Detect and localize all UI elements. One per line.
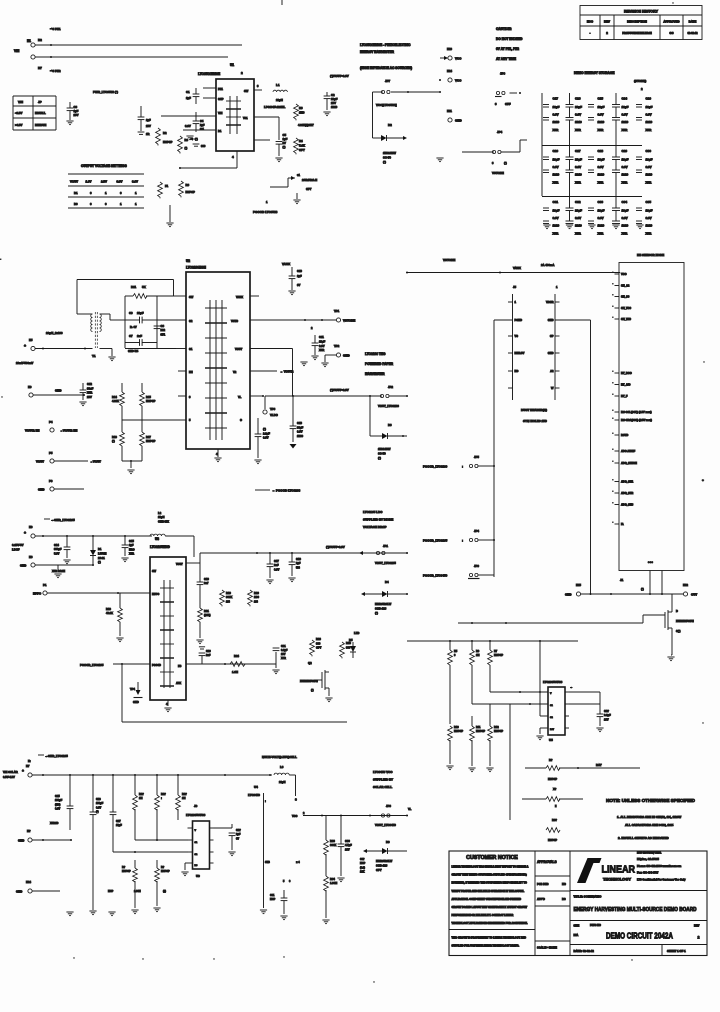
svg-text:D1: D1 <box>74 191 78 195</box>
svg-text:VLDO: VLDO <box>270 413 279 417</box>
svg-text:P1: P1 <box>43 583 47 587</box>
svg-text:OUT: OUT <box>691 593 697 597</box>
svg-text:6.3V: 6.3V <box>319 344 325 348</box>
resistor R38 bat <box>525 758 640 781</box>
svg-text:C32: C32 <box>575 200 581 204</box>
svg-text:ADC_CH2: ADC_CH2 <box>621 491 634 495</box>
svg-text:U6: U6 <box>196 874 200 878</box>
capacitor C13 <box>290 396 304 449</box>
wire solar input bus <box>35 535 152 537</box>
capacitor C8 series <box>154 324 166 336</box>
svg-text:6.3V: 6.3V <box>575 112 581 116</box>
svg-text:(*): (*) <box>195 137 198 141</box>
resistor R37 low <box>155 860 170 906</box>
svg-text:10µH: 10µH <box>158 515 165 519</box>
svg-text:LTC Confidential-For Customer: LTC Confidential-For Customer Use Only <box>637 878 686 881</box>
approvals column <box>535 860 570 950</box>
svg-text:VCC: VCC <box>455 57 462 61</box>
resistor R26 led <box>340 641 352 658</box>
svg-text:4.02K: 4.02K <box>112 399 119 403</box>
svg-text:22µH: 22µH <box>279 780 286 784</box>
resistor R3 VOUT set <box>294 104 314 127</box>
svg-text:+: + <box>24 344 26 348</box>
svg-text:INSTALL: INSTALL <box>35 111 46 115</box>
svg-text:JP2: JP2 <box>388 385 393 389</box>
svg-text:→GND_LTC3105: →GND_LTC3105 <box>51 518 75 522</box>
svg-text:6.3V: 6.3V <box>646 216 652 220</box>
svg-text:20µH_1:100: 20µH_1:100 <box>46 331 63 335</box>
svg-text:>3.5V: >3.5V <box>15 123 23 127</box>
capacitor C26 storage bank <box>543 149 560 184</box>
svg-text:3n7: 3n7 <box>204 581 209 585</box>
svg-text:C31: C31 <box>270 894 275 897</box>
wire U1 GND pin <box>254 139 270 141</box>
svg-text:2A 400mA: 2A 400mA <box>541 263 554 267</box>
svg-text:C13: C13 <box>297 421 302 425</box>
terminal P1 MPPC <box>33 583 150 596</box>
svg-text:PGOOD_LTC3105: PGOOD_LTC3105 <box>80 663 104 667</box>
svg-text:R11: R11 <box>131 285 137 289</box>
resistor R7b NOPOP <box>158 182 169 198</box>
svg-text:NOPOP: NOPOP <box>548 778 557 781</box>
resistor R40 bat3 <box>546 818 560 842</box>
svg-text:20mV-500mV: 20mV-500mV <box>16 361 33 365</box>
capacitor C30 <box>337 816 352 882</box>
svg-text:CUSTOMER NOTICE: CUSTOMER NOTICE <box>466 855 518 861</box>
svg-text:E?: E? <box>27 829 31 833</box>
svg-text:33µF: 33µF <box>297 425 304 429</box>
svg-text:6.3V: 6.3V <box>55 808 60 811</box>
label VOUT LTC3588 <box>330 74 349 78</box>
svg-text:VBOR: VBOR <box>546 300 554 304</box>
svg-text:C27: C27 <box>116 820 121 823</box>
svg-text:C18: C18 <box>296 557 301 561</box>
svg-text:R18: R18 <box>106 607 111 611</box>
diode D6 <box>363 840 407 872</box>
svg-text:GND: GND <box>38 488 44 492</box>
svg-text:DESCRIPTION: DESCRIPTION <box>627 20 647 24</box>
svg-text:22pF: 22pF <box>137 311 144 315</box>
svg-text:0.1µF: 0.1µF <box>604 713 611 717</box>
svg-text:SH_A2: SH_A2 <box>621 284 630 288</box>
svg-text:TP2: TP2 <box>334 344 340 348</box>
svg-text:(*): (*) <box>98 560 101 564</box>
svg-text:(*)VOUT=3.6V: (*)VOUT=3.6V <box>330 74 349 78</box>
svg-text:R2?: R2? <box>161 793 166 796</box>
transistor Q3 <box>665 594 694 636</box>
capacitor C28b J6 <box>214 824 242 856</box>
svg-text:OPT: OPT <box>299 148 305 152</box>
svg-text:(0): (0) <box>163 890 166 893</box>
svg-text:⇀3 PZ1: ⇀3 PZ1 <box>50 26 61 31</box>
svg-text:VL: VL <box>238 395 242 399</box>
wire secondary top to U2 <box>100 314 126 320</box>
svg-text:PERFORMANCE OR RELIABILITY. CO: PERFORMANCE OR RELIABILITY. CONTACT LINE… <box>452 914 514 917</box>
svg-text:NOP: NOP <box>108 890 114 893</box>
svg-text:STB: STB <box>265 861 270 864</box>
svg-text:1G0: 1G0 <box>254 595 259 599</box>
capacitor C15 storage bank <box>588 97 605 132</box>
svg-text:LTC3459: LTC3459 <box>248 793 260 797</box>
svg-text:REV: REV <box>604 20 610 24</box>
svg-text:2: 2 <box>698 936 700 940</box>
terminal E5 VIN TEG <box>16 338 35 365</box>
terminal P4 VOUT2 EN <box>25 420 77 433</box>
wire U1 D1 pin with arrow <box>183 124 216 130</box>
svg-text:ZXM?N3F30FH: ZXM?N3F30FH <box>300 680 318 683</box>
resistor R39 bat2 <box>522 787 583 808</box>
svg-text:C17: C17 <box>274 559 279 563</box>
svg-text:APPROVALS: APPROVALS <box>537 860 557 864</box>
svg-text:(*): (*) <box>185 146 188 150</box>
svg-text:X5R: X5R <box>598 231 605 235</box>
svg-text:VAUX: VAUX <box>513 266 521 270</box>
svg-text:100µF: 100µF <box>55 799 63 802</box>
svg-text:R8: R8 <box>186 183 190 187</box>
svg-text:3F1: 3F1 <box>161 332 166 336</box>
svg-text:MS: MS <box>562 882 566 886</box>
svg-text:E14: E14 <box>447 69 452 73</box>
U2 pin labels <box>189 295 243 422</box>
svg-text:X7R: X7R <box>129 552 134 556</box>
terminal P6 GND <box>38 479 84 492</box>
svg-text:DWG NO: DWG NO <box>590 923 601 927</box>
resistor R32 fb <box>488 704 504 766</box>
jumper JP5 PGOOD 3109 <box>423 455 495 469</box>
capacitor C20b <box>199 647 212 664</box>
svg-text:R2?: R2? <box>139 793 144 796</box>
svg-text:TECHNOLOGY APPLICATIONS ENGINE: TECHNOLOGY APPLICATIONS ENGINEERING FOR … <box>452 922 528 925</box>
svg-text:D3: D3 <box>388 423 392 427</box>
svg-text:NOPOP: NOPOP <box>122 870 131 873</box>
svg-text:VOUT2 EN: VOUT2 EN <box>25 429 39 433</box>
svg-text:C26: C26 <box>553 149 559 153</box>
capacitor C34 storage bank <box>612 197 629 236</box>
svg-text:20V≤F10A-H: 20V≤F10A-H <box>302 178 317 182</box>
ground below C5 <box>275 158 282 162</box>
svg-text:1206: 1206 <box>297 434 303 438</box>
svg-text:R12: R12 <box>494 726 499 729</box>
svg-text:NOPOP: NOPOP <box>494 654 503 657</box>
svg-text:VL: VL <box>408 807 412 811</box>
capacitor C23 U5 <box>596 704 611 732</box>
terminal E12 OUT <box>683 583 697 597</box>
svg-text:VCC: VCC <box>292 815 297 818</box>
svg-text:222: 222 <box>161 328 166 332</box>
svg-text:1210: 1210 <box>646 223 653 227</box>
wire cap bank bus row2 <box>542 145 642 147</box>
svg-text:BAT: BAT <box>596 763 602 767</box>
svg-text:S: S <box>295 798 297 802</box>
svg-text:LED: LED <box>354 631 359 635</box>
wire VLDO tap <box>250 395 265 409</box>
svg-text:(6.3): (6.3) <box>360 866 365 869</box>
svg-text:LTC2935CTS8: LTC2935CTS8 <box>543 680 563 684</box>
svg-text:C7: C7 <box>129 334 133 338</box>
svg-text:+: + <box>24 531 26 535</box>
wire U2 EN pin <box>178 370 186 372</box>
svg-text:X5R: X5R <box>622 128 629 132</box>
ground Q2 <box>325 698 332 702</box>
wire PGOOD bus bracket <box>494 320 513 577</box>
svg-text:C10: C10 <box>297 269 302 273</box>
svg-text:330: 330 <box>346 645 351 649</box>
wire J2 GND to E15 <box>555 320 591 594</box>
svg-text:(20K): (20K) <box>204 613 211 617</box>
svg-text:JP3: JP3 <box>386 804 391 808</box>
svg-text:I2C SDA(DC6) (2.5V max): I2C SDA(DC6) (2.5V max) <box>621 418 652 422</box>
svg-text:LINEAR TECHNOLOGY HAS MADE A B: LINEAR TECHNOLOGY HAS MADE A BEST EFFORT… <box>452 866 529 869</box>
capacitor C5 <box>276 133 288 156</box>
svg-text:PGND: PGND <box>515 318 523 322</box>
svg-text:APP'D: APP'D <box>537 897 545 901</box>
resistor R28 divider <box>470 641 480 692</box>
capacitor C31 fb <box>270 890 288 920</box>
svg-text:D4: D4 <box>385 580 389 584</box>
svg-text:1210: 1210 <box>622 120 629 124</box>
svg-text:C31: C31 <box>553 200 559 204</box>
svg-text:MBR0520LW: MBR0520LW <box>376 859 393 863</box>
svg-text:(HIGH IMPEDANCE AC SOURCES): (HIGH IMPEDANCE AC SOURCES) <box>360 66 412 70</box>
wire VOUT2 net <box>250 370 294 374</box>
svg-text:0.25V-5V: 0.25V-5V <box>12 543 24 547</box>
svg-text:L1: L1 <box>276 83 280 87</box>
ground R31 <box>468 768 475 772</box>
svg-text:R?: R? <box>161 866 165 869</box>
svg-text:1630 McCarthy Blvd.: 1630 McCarthy Blvd. <box>637 852 662 855</box>
wire U1 VIN pin <box>161 115 216 117</box>
wire U3 VOUT to bus <box>186 553 200 563</box>
svg-text:PGOOD: PGOOD <box>152 664 161 667</box>
wire U5 right pins <box>569 686 600 704</box>
svg-text:VCC: VCC <box>621 272 627 276</box>
capacitor C2 output <box>323 92 337 116</box>
svg-text:X5R: X5R <box>622 180 629 184</box>
svg-text:10µF: 10µF <box>575 157 582 161</box>
svg-text:1210: 1210 <box>646 120 653 124</box>
svg-text:PGOOD_LTC3105: PGOOD_LTC3105 <box>423 539 448 543</box>
svg-text:6.3V: 6.3V <box>96 806 101 809</box>
label DEMO ENERGY STORAGE <box>574 71 646 91</box>
svg-text:E12: E12 <box>683 583 688 587</box>
svg-text:L2: L2 <box>158 511 162 515</box>
svg-text:VIN: VIN <box>18 100 23 104</box>
svg-text:PGOOD_LTC3109: PGOOD_LTC3109 <box>423 465 448 469</box>
ground R34 <box>322 920 329 924</box>
svg-text:SC-70: SC-70 <box>378 452 386 456</box>
capacitor C18b <box>288 553 301 582</box>
svg-text:16V: 16V <box>604 717 609 721</box>
svg-text:EN: EN <box>189 370 193 374</box>
svg-text:OPT: OPT <box>316 646 322 650</box>
svg-text:HARVESTER: HARVESTER <box>365 372 385 376</box>
svg-text:<3.5V: <3.5V <box>15 111 23 115</box>
ground R32 <box>486 768 493 772</box>
svg-text:(*): (*) <box>641 587 644 591</box>
svg-text:1. ALL RESISTORS ARE IN OHMS,: 1. ALL RESISTORS ARE IN OHMS, 1%, 1/10W <box>617 815 681 819</box>
ground row bottom C25 <box>66 912 73 916</box>
svg-text:X5R: X5R <box>598 128 605 132</box>
svg-text:D0: D0 <box>74 202 78 206</box>
svg-text:(*): (*) <box>263 427 266 431</box>
svg-text:6.3V: 6.3V <box>263 436 269 440</box>
svg-text:10µF: 10µF <box>553 105 560 109</box>
svg-text:(*): (*) <box>311 689 314 692</box>
svg-text:A2: A2 <box>550 369 554 373</box>
testpoint TP2 GND <box>321 344 350 367</box>
svg-text:C34: C34 <box>622 200 628 204</box>
svg-text:R17: R17 <box>146 435 151 439</box>
wire T1 primary bottom <box>35 348 92 350</box>
svg-text:VOUT: VOUT <box>36 460 44 464</box>
capacitor C10 VAUX <box>288 267 302 295</box>
capacitor C19 fb <box>197 563 210 608</box>
wire U5 lower bus <box>509 704 511 820</box>
svg-text:VSTORE: VSTORE <box>443 258 455 262</box>
svg-text:LTC3108 TEG: LTC3108 TEG <box>365 352 386 356</box>
resistor R29 divider <box>488 641 504 692</box>
svg-text:2. INSTALL SHUNTS AS INDICATED: 2. INSTALL SHUNTS AS INDICATED <box>618 836 670 840</box>
transistor Q1 PGOOD flag <box>270 173 317 191</box>
IC U5 LTC2935 <box>543 680 569 742</box>
svg-text:JP4: JP4 <box>474 529 479 533</box>
IC U2 LTC3109 <box>186 259 250 449</box>
svg-text:+: + <box>702 478 704 482</box>
svg-text:GND: GND <box>18 839 24 843</box>
IC U3 LTC3105 <box>150 537 186 700</box>
svg-text:LPS6045-223ML: LPS6045-223ML <box>264 105 286 109</box>
svg-text:1210: 1210 <box>575 223 582 227</box>
svg-text:6.3V: 6.3V <box>646 112 652 116</box>
svg-text:10µF: 10µF <box>622 105 629 109</box>
svg-text:OPT: OPT <box>376 868 382 872</box>
svg-text:PWR_LTC3588 (*): PWR_LTC3588 (*) <box>93 90 118 94</box>
svg-text:(*): (*) <box>504 161 507 165</box>
svg-text:X5R: X5R <box>575 231 582 235</box>
terminal E9 GND <box>28 385 85 397</box>
svg-text:BH/2.5V: BH/2.5V <box>515 351 525 355</box>
svg-text:C15: C15 <box>129 539 134 543</box>
svg-text:10µF: 10µF <box>646 105 653 109</box>
wire JP2 to D3 <box>369 396 371 436</box>
capacitor C15 input2 <box>121 536 134 562</box>
svg-text:E9: E9 <box>28 385 32 389</box>
svg-text:CIRCUIT THAT MEETS CUSTOMER-SU: CIRCUIT THAT MEETS CUSTOMER-SUPPLIED SPE… <box>452 874 527 877</box>
resistor R5 nopop <box>156 128 173 146</box>
label VOUT ltc3459 <box>408 807 412 811</box>
wire below U1 <box>179 151 237 169</box>
jumper JP7 VCC select <box>381 79 441 94</box>
svg-text:6V AT PZ1, PZ2: 6V AT PZ1, PZ2 <box>496 47 519 51</box>
capacitor C12 <box>79 382 93 406</box>
label VOUT_LTC3459 <box>375 823 396 827</box>
diode D3 <box>370 423 407 460</box>
svg-text:D1: D1 <box>98 547 102 551</box>
resistor R33 fb <box>324 816 337 877</box>
terminal E11 GND <box>447 109 463 123</box>
svg-text:X5R: X5R <box>598 180 605 184</box>
svg-text:10µF: 10µF <box>598 208 605 212</box>
svg-text:VERIFY PROPER AND RELIABLE OPE: VERIFY PROPER AND RELIABLE OPERATION IN … <box>452 890 525 893</box>
svg-text:25V: 25V <box>146 124 151 128</box>
wire PZ1 <box>35 44 242 46</box>
svg-text:C33: C33 <box>598 200 604 204</box>
jumper JP6 PGOOD 3459 <box>423 564 494 579</box>
svg-text:R10: R10 <box>454 726 459 729</box>
svg-text:C2: C2 <box>189 319 193 323</box>
diode D4 <box>361 580 408 615</box>
wire U2 pin C1 <box>125 348 186 350</box>
svg-text:SH_VC0: SH_VC0 <box>621 306 632 310</box>
svg-text:I2C SCL(DC7) (2.5V max): I2C SCL(DC7) (2.5V max) <box>621 410 652 414</box>
resistor R24 <box>230 654 245 674</box>
wire U3 pgood row <box>186 663 276 665</box>
svg-text:X5R: X5R <box>622 231 629 235</box>
svg-text:VCC[LTC3588]: VCC[LTC3588] <box>376 103 397 107</box>
svg-text:SH_VE0: SH_VE0 <box>621 317 632 321</box>
svg-text:C17: C17 <box>553 97 559 101</box>
resistor R35a NOPOP <box>176 775 188 820</box>
svg-text:4.7µF: 4.7µF <box>345 843 352 847</box>
capacitor C11 <box>311 335 325 360</box>
ground mid <box>166 205 173 227</box>
svg-text:VCC: VCC <box>455 79 462 83</box>
svg-text:22µH: 22µH <box>276 98 283 102</box>
svg-text:SW: SW <box>152 570 157 573</box>
svg-text:10µF: 10µF <box>622 157 629 161</box>
svg-text:E7: E7 <box>26 764 30 768</box>
svg-text:1210: 1210 <box>598 223 605 227</box>
svg-text:NOP: NOP <box>360 862 366 865</box>
terminal E15 GND <box>565 583 683 597</box>
svg-text:1210: 1210 <box>646 172 653 176</box>
resistor R19 NOPOP <box>220 590 233 606</box>
ground center <box>436 158 443 162</box>
svg-text:VSTORE: VSTORE <box>492 171 504 175</box>
svg-text:0.1µF: 0.1µF <box>281 649 288 652</box>
capacitor C27 <box>110 775 123 852</box>
wire U1 PZ1 pin <box>203 87 216 89</box>
connector J2 right row <box>546 285 560 400</box>
svg-text:1µF: 1µF <box>129 543 134 547</box>
inductor L1 <box>264 83 287 109</box>
svg-text:6.3V: 6.3V <box>553 165 559 169</box>
svg-text:02-02-12: 02-02-12 <box>687 32 698 35</box>
svg-text:R24: R24 <box>234 654 239 658</box>
label supplied by solar <box>373 770 393 789</box>
svg-text:10µF: 10µF <box>622 208 629 212</box>
svg-text:RT_F: RT_F <box>621 394 628 398</box>
svg-text:X5R: X5R <box>646 180 653 184</box>
capacitor C22b <box>254 418 270 464</box>
node PZ1 label <box>38 26 61 42</box>
svg-text:LTC3105EDD: LTC3105EDD <box>150 545 170 549</box>
svg-text:SW: SW <box>244 89 249 93</box>
LED D5 <box>349 631 359 658</box>
svg-text:6.3V: 6.3V <box>553 112 559 116</box>
svg-text:C2?: C2? <box>236 829 241 832</box>
jumper JP1 <box>359 544 408 565</box>
wire U2 pin5 stub <box>178 419 186 421</box>
resistor R34a NOPOP <box>155 775 167 840</box>
svg-text:C11: C11 <box>319 335 324 339</box>
svg-text:(*): (*) <box>112 439 115 443</box>
svg-text:6.3V: 6.3V <box>598 112 604 116</box>
label GND LTC3105 bottom <box>28 754 68 763</box>
svg-text:GND: GND <box>20 564 26 568</box>
svg-text:R?: R? <box>549 758 553 762</box>
svg-text:E11: E11 <box>447 109 452 113</box>
